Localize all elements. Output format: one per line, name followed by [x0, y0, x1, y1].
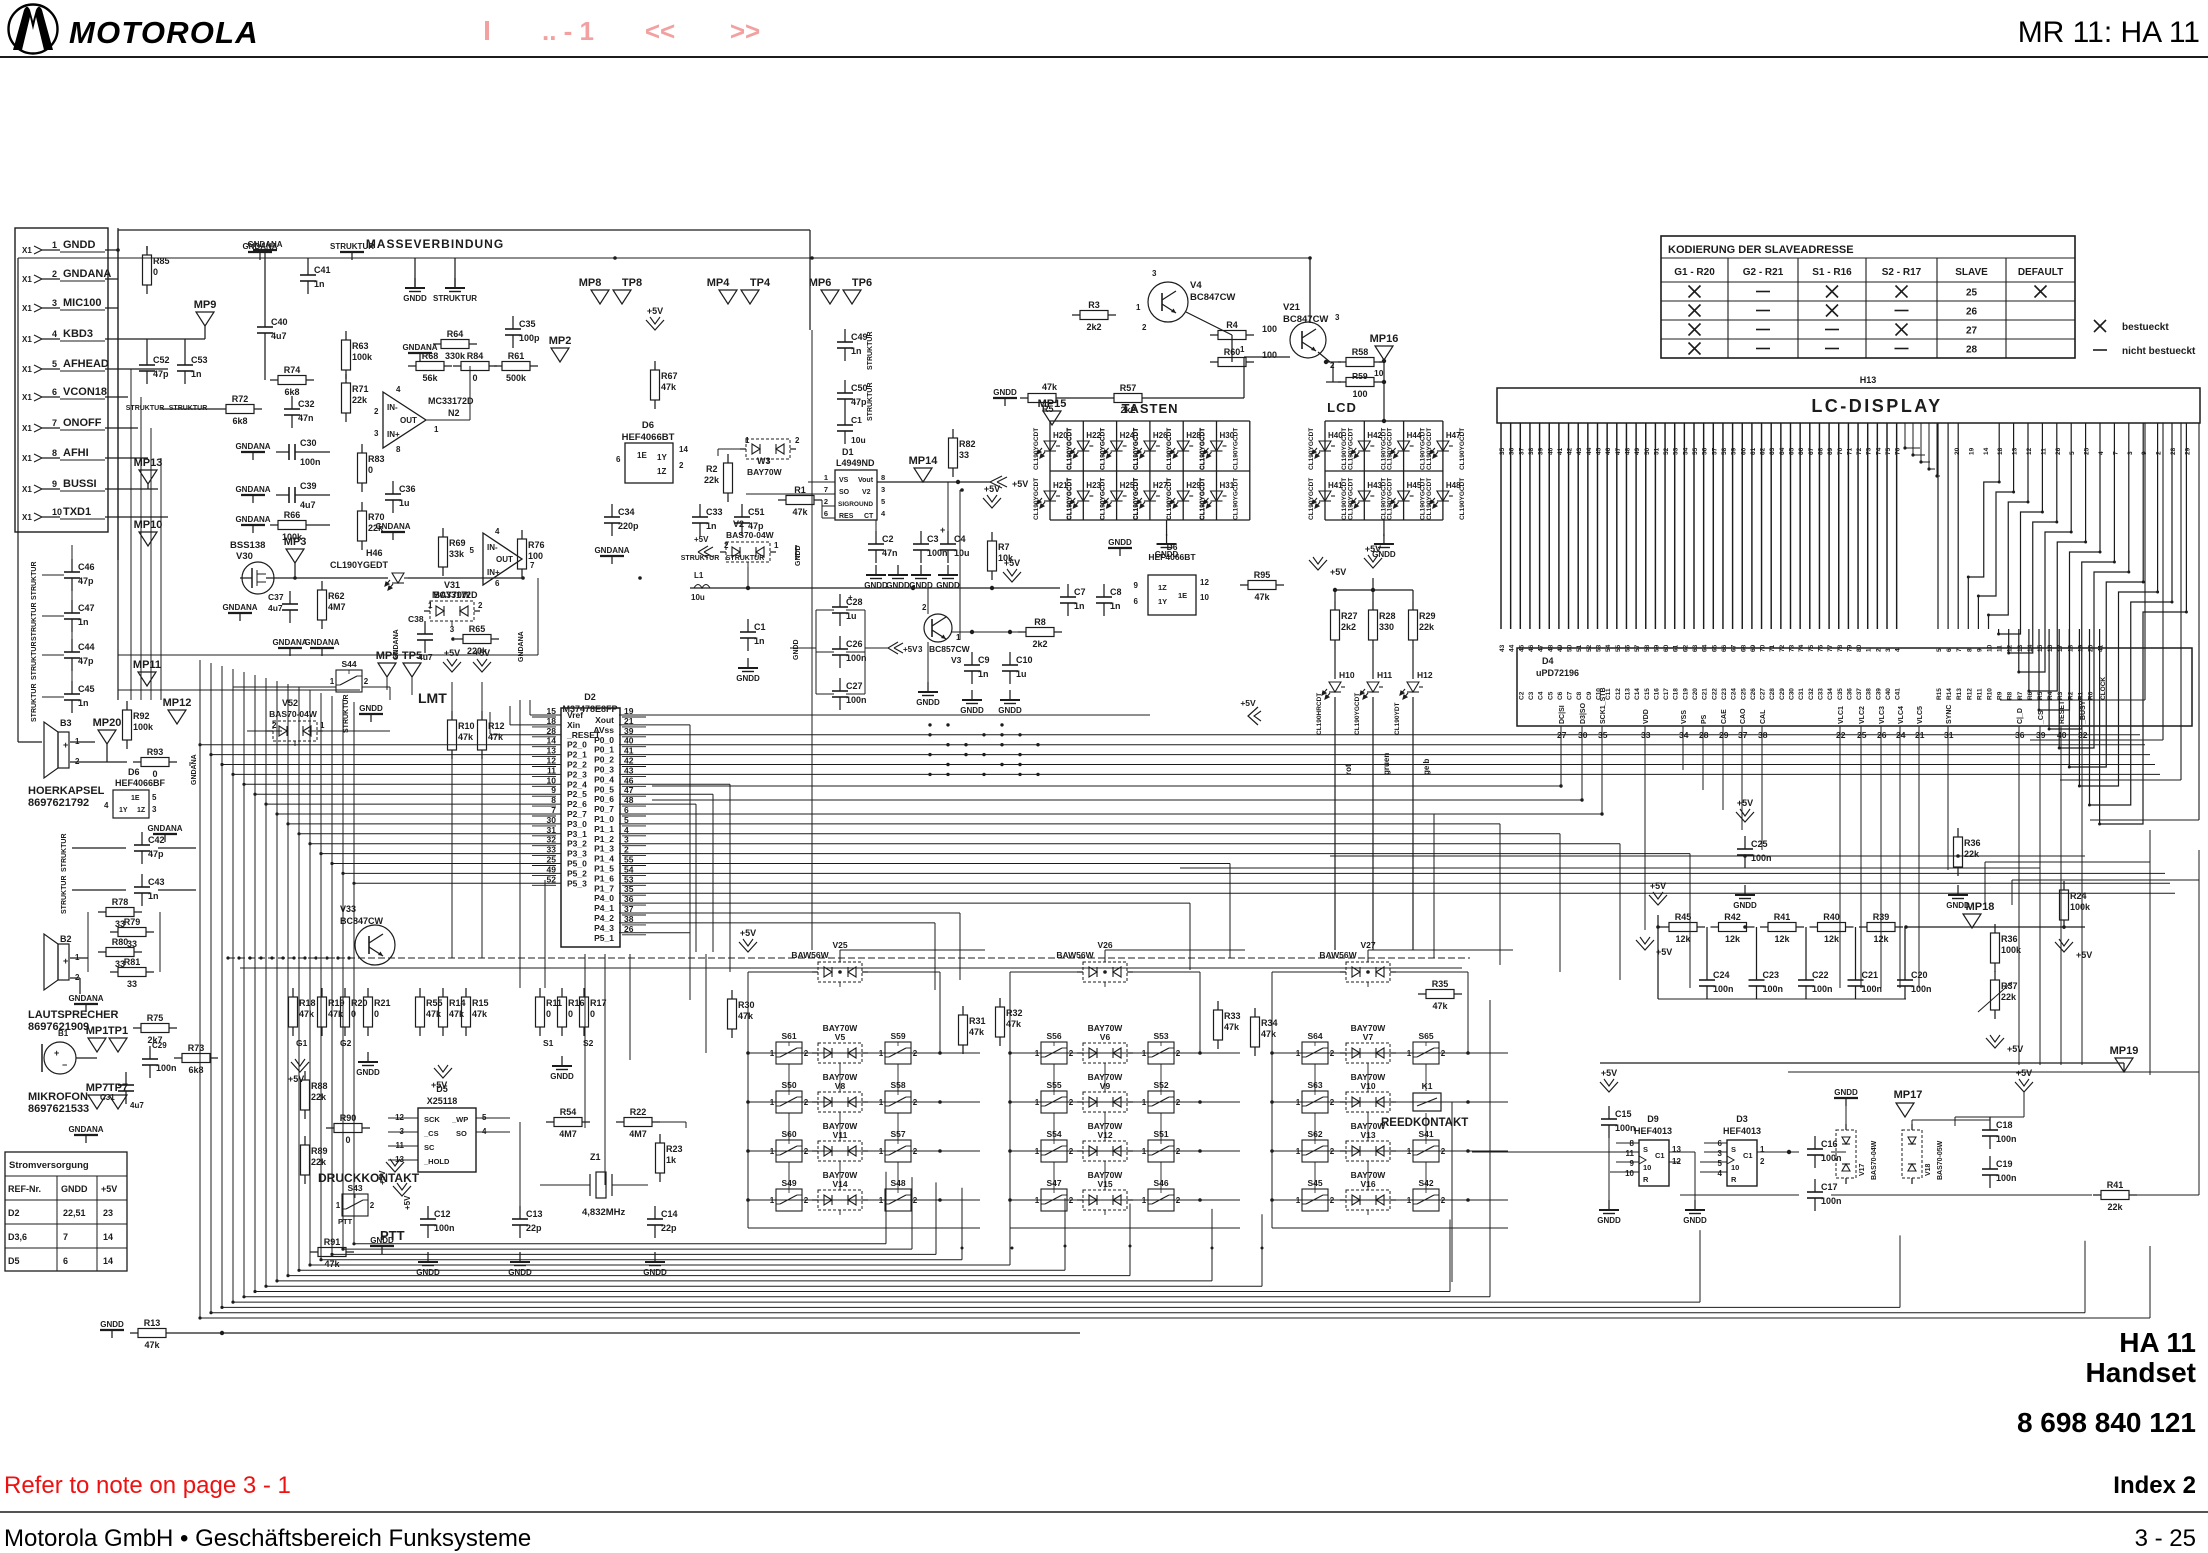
resistor R20: [344, 988, 346, 997]
svg-text:I: I: [483, 15, 491, 46]
svg-text:5: 5: [881, 497, 885, 506]
test point MP17: [1896, 1103, 1914, 1117]
test point MP19: [2115, 1058, 2133, 1072]
svg-text:2: 2: [1069, 1049, 1074, 1058]
test point MP1: [88, 1038, 106, 1052]
svg-text:BAY70W: BAY70W: [823, 1072, 859, 1082]
svg-text:SO: SO: [839, 489, 850, 496]
svg-text:MIKROFON: MIKROFON: [28, 1091, 88, 1103]
svg-text:−: −: [62, 1060, 67, 1070]
svg-text:20: 20: [1954, 447, 1961, 455]
svg-text:R89: R89: [311, 1146, 328, 1156]
svg-text:Vref: Vref: [567, 710, 583, 720]
svg-text:STRUKTUR: STRUKTUR: [681, 555, 720, 562]
svg-text:G2 - R21: G2 - R21: [1743, 267, 1784, 278]
svg-text:CLOCK: CLOCK: [2100, 677, 2107, 700]
svg-text:2: 2: [913, 1098, 918, 1107]
svg-text:BAY70W: BAY70W: [1088, 1170, 1124, 1180]
svg-text:+5V: +5V: [288, 1074, 304, 1084]
resistor R71: [345, 374, 347, 383]
svg-text:R54: R54: [560, 1107, 577, 1117]
svg-text:GNDANA: GNDANA: [518, 631, 525, 662]
svg-text:R36: R36: [2001, 934, 2018, 944]
svg-text:MP15: MP15: [1038, 398, 1067, 410]
svg-text:BAY70W: BAY70W: [1351, 1023, 1387, 1033]
svg-text:CL190YGCDT: CL190YGCDT: [1100, 478, 1107, 520]
svg-text:0: 0: [153, 267, 158, 277]
svg-text:P0_5: P0_5: [594, 784, 614, 794]
svg-text:R11: R11: [1976, 688, 1983, 700]
svg-text:P4_3: P4_3: [594, 923, 614, 933]
svg-text:D1: D1: [842, 447, 854, 457]
svg-text:R67: R67: [661, 371, 678, 381]
resistor R81: [110, 971, 118, 973]
resistor R78: [98, 911, 106, 913]
svg-text:D9: D9: [1647, 1114, 1659, 1124]
svg-text:100n: 100n: [1713, 984, 1734, 994]
transistor V4 BC847CW: [1148, 282, 1188, 322]
capacitor C35: [512, 316, 514, 329]
svg-text:47p: 47p: [78, 576, 94, 586]
LED H45 CL190YGCDT: [1391, 491, 1414, 508]
microphone B1 MIKROFON: [44, 1042, 76, 1074]
svg-text:P2_1: P2_1: [567, 750, 587, 760]
wires s44 area: [233, 686, 336, 688]
svg-text:6: 6: [495, 579, 500, 588]
svg-text:VSS: VSS: [1681, 710, 1688, 724]
ground GNDD: [1834, 1097, 1858, 1099]
svg-text:V2: V2: [733, 519, 744, 529]
svg-text:0: 0: [472, 373, 477, 383]
test point MP8: [591, 290, 609, 304]
capacitor C32: [291, 396, 293, 409]
ground GNDD: [414, 278, 416, 288]
LED H44 CL190YGCDT: [1391, 441, 1414, 458]
svg-text:P1_6: P1_6: [594, 873, 614, 883]
svg-text:P1_4: P1_4: [594, 854, 614, 864]
svg-text:2: 2: [2156, 451, 2163, 455]
resistor R29: [1412, 601, 1414, 610]
svg-text:DRUCKKONTAKT: DRUCKKONTAKT: [318, 1171, 420, 1185]
resistor R19: [321, 988, 323, 997]
svg-text:+: +: [54, 1048, 59, 1058]
switch S54: [1041, 1140, 1067, 1162]
LED H29 CL190YGCDT: [1170, 491, 1193, 508]
svg-text:C13: C13: [526, 1209, 543, 1219]
resistor R92: [126, 701, 128, 710]
svg-text:D3,6: D3,6: [8, 1232, 27, 1242]
wire +5V rail 588: [690, 587, 1060, 589]
svg-text:G2: G2: [340, 1038, 352, 1048]
wire bus LC-display row lines with staircase: [1937, 423, 1939, 629]
svg-text:2: 2: [922, 603, 927, 612]
resistor R17: [583, 988, 585, 997]
ground GNDD: [897, 565, 899, 575]
svg-text:100n: 100n: [1862, 984, 1883, 994]
junction dots bus crossings: [928, 723, 931, 726]
svg-text:_HOLD: _HOLD: [423, 1157, 450, 1166]
wire analog box bottom: [118, 654, 538, 656]
svg-text:4u7: 4u7: [300, 500, 316, 510]
svg-text:5: 5: [52, 359, 57, 369]
svg-text:P5_2: P5_2: [567, 868, 587, 878]
wire left spine verticals: [117, 228, 119, 700]
svg-text:GNDD: GNDD: [1733, 901, 1757, 910]
+5V supply: [1649, 895, 1667, 905]
svg-text:100n: 100n: [156, 1063, 177, 1073]
svg-text:TXD1: TXD1: [63, 506, 91, 518]
resistor R68: [408, 365, 416, 367]
resistor R61: [494, 365, 502, 367]
svg-text:PS: PS: [1701, 714, 1708, 724]
capacitor C29: [149, 1046, 151, 1059]
svg-text:R14: R14: [449, 998, 466, 1008]
svg-text:2: 2: [804, 1196, 809, 1205]
svg-text:X1: X1: [22, 513, 32, 522]
svg-text:>>: >>: [730, 16, 760, 46]
svg-text:GNDANA: GNDANA: [235, 485, 270, 494]
svg-text:CL190YGCDT: CL190YGCDT: [1233, 428, 1240, 470]
capacitor C28: [839, 594, 841, 607]
svg-text:CL190HRCDT: CL190HRCDT: [1316, 693, 1323, 735]
svg-text:GNDANA: GNDANA: [235, 442, 270, 451]
svg-text:1n: 1n: [314, 279, 325, 289]
svg-text:GNDD: GNDD: [886, 581, 910, 590]
wire horizontals below D4: [1330, 855, 2085, 857]
svg-text:OUT: OUT: [496, 555, 513, 564]
svg-text:7: 7: [530, 561, 535, 570]
svg-text:CL190YGCDT: CL190YGCDT: [1459, 428, 1466, 470]
svg-text:P1_1: P1_1: [594, 824, 614, 834]
svg-text:38: 38: [1528, 447, 1535, 455]
svg-text:uPD72196: uPD72196: [1536, 668, 1579, 678]
svg-text:C35: C35: [1837, 688, 1844, 700]
svg-text:1: 1: [330, 677, 335, 686]
svg-text:47k: 47k: [458, 732, 474, 742]
svg-text:VLC5: VLC5: [1917, 706, 1924, 724]
svg-text:+5V: +5V: [2007, 1044, 2023, 1054]
svg-text:100n: 100n: [434, 1223, 455, 1233]
svg-text:2: 2: [364, 677, 369, 686]
svg-text:8: 8: [396, 445, 401, 454]
svg-text:gruen: gruen: [1382, 753, 1391, 775]
svg-text:47p: 47p: [153, 369, 169, 379]
svg-text:C53: C53: [191, 355, 208, 365]
LED H30 CL190YGCDT: [1204, 441, 1227, 458]
svg-text:MP20: MP20: [93, 717, 122, 729]
capacitor C50: [844, 380, 846, 393]
svg-text:GNDD: GNDD: [916, 698, 940, 707]
svg-text:X1: X1: [22, 275, 32, 284]
svg-text:35: 35: [1499, 447, 1506, 455]
svg-text:28: 28: [2170, 447, 2177, 455]
legend bestueckt: [2094, 320, 2106, 332]
svg-text:CL190YGCDT: CL190YGCDT: [1233, 478, 1240, 520]
svg-text:GNDD: GNDD: [1155, 550, 1179, 559]
switch S51: [1148, 1140, 1174, 1162]
svg-text:D4: D4: [1542, 656, 1554, 666]
svg-text:MP9: MP9: [194, 299, 217, 311]
test point MP15: [1043, 411, 1061, 425]
wire X1 to spine: [105, 249, 118, 251]
resistor R29: [1412, 590, 1414, 601]
svg-text:CL190YGCDT: CL190YGCDT: [1426, 478, 1433, 520]
capacitor C41: [307, 262, 309, 275]
svg-text:47k: 47k: [1261, 1029, 1277, 1039]
svg-text:R42: R42: [1724, 912, 1741, 922]
svg-text:C17: C17: [1821, 1182, 1838, 1192]
svg-text:C50: C50: [851, 383, 868, 393]
svg-text:G1: G1: [296, 1038, 308, 1048]
svg-text:L4949ND: L4949ND: [836, 458, 875, 468]
ground GNDD: [920, 565, 922, 575]
svg-text:12: 12: [1200, 578, 1209, 587]
resistor R12: [481, 711, 483, 720]
svg-text:47p: 47p: [851, 397, 867, 407]
switch S55: [1041, 1091, 1067, 1113]
ground GNDD: [1957, 885, 1959, 895]
svg-text:1: 1: [1035, 1098, 1040, 1107]
ground GNDANA: [381, 531, 405, 533]
svg-text:TP1: TP1: [108, 1025, 128, 1037]
svg-text:43: 43: [1499, 644, 1506, 652]
svg-text:AFHI: AFHI: [63, 447, 89, 459]
resistor R30: [731, 990, 733, 999]
svg-text:V27: V27: [1360, 940, 1375, 950]
switch S49: [776, 1189, 802, 1211]
svg-text:100: 100: [1352, 389, 1367, 399]
svg-text:12k: 12k: [1873, 934, 1889, 944]
svg-text:MP11: MP11: [133, 659, 161, 671]
svg-text:GNDD: GNDD: [359, 704, 383, 713]
svg-text:6: 6: [824, 509, 828, 518]
svg-text:68: 68: [1817, 447, 1824, 455]
svg-text:R30: R30: [738, 1000, 755, 1010]
ground GNDANA: [241, 524, 265, 526]
capacitor C52: [146, 352, 148, 365]
LED H28 CL190YGCDT: [1170, 441, 1193, 458]
svg-text:P4_0: P4_0: [594, 893, 614, 903]
svg-text:GNDD: GNDD: [416, 1268, 440, 1277]
svg-text:R15: R15: [472, 998, 489, 1008]
capacitor C17: [1814, 1179, 1816, 1192]
svg-text:R10: R10: [458, 721, 475, 731]
svg-text:1: 1: [1407, 1147, 1412, 1156]
svg-text:C20: C20: [1911, 970, 1928, 980]
svg-text:V25: V25: [832, 940, 847, 950]
svg-text:C15: C15: [1615, 1109, 1632, 1119]
svg-text:R10: R10: [1987, 688, 1994, 700]
svg-text:100k: 100k: [133, 722, 154, 732]
svg-text:C29: C29: [152, 1041, 167, 1050]
svg-text:S44: S44: [341, 659, 356, 669]
resistor R79: [110, 931, 118, 933]
wires v4 cluster: [1064, 397, 1106, 399]
svg-text:+5V: +5V: [1240, 698, 1256, 708]
svg-text:BAY70W: BAY70W: [823, 1023, 859, 1033]
svg-text:R75: R75: [147, 1013, 164, 1023]
ground GNDD: [367, 1052, 369, 1062]
svg-text:10: 10: [1643, 1163, 1651, 1172]
ground GNDANA: [248, 251, 272, 253]
resistor R45: [1661, 926, 1669, 928]
ground GNDD: [1608, 1200, 1610, 1210]
svg-text:R80: R80: [112, 937, 129, 947]
svg-text:Z1: Z1: [590, 1152, 601, 1162]
svg-text:1n: 1n: [706, 521, 717, 531]
svg-text:N2: N2: [448, 408, 460, 418]
wire left margin vertical: [17, 258, 19, 742]
svg-text:47p: 47p: [148, 849, 164, 859]
svg-text:C19: C19: [1682, 688, 1689, 700]
svg-text:4u7: 4u7: [268, 603, 283, 613]
diode W3 BAY70W: [746, 439, 790, 459]
svg-text:R17: R17: [590, 998, 607, 1008]
capacitor C1: [844, 412, 846, 425]
svg-text:+5V: +5V: [444, 648, 460, 658]
ground GNDANA: [153, 833, 177, 835]
svg-text:GNDD: GNDD: [793, 639, 800, 660]
svg-text:R34: R34: [1261, 1018, 1278, 1028]
svg-text:C27: C27: [846, 681, 863, 691]
svg-text:S65: S65: [1418, 1031, 1433, 1041]
ground STRUKTUR: [454, 278, 456, 288]
resistor R66: [270, 524, 278, 526]
+5V supply: [386, 1162, 404, 1172]
LED H42 CL190YGCDT: [1351, 441, 1374, 458]
resistor R76: [521, 530, 523, 539]
test point MP13: [139, 470, 157, 484]
svg-text:HEF4066BF: HEF4066BF: [115, 778, 166, 788]
svg-text:P0_3: P0_3: [594, 765, 614, 775]
svg-text:2: 2: [724, 541, 729, 550]
svg-text:22k: 22k: [2107, 1202, 2123, 1212]
svg-text:R: R: [1643, 1175, 1649, 1184]
wire bus LC-display column lines: [1500, 423, 1502, 629]
LED H20 CL190YGCDT: [1037, 441, 1060, 458]
svg-text:C32: C32: [1808, 688, 1815, 700]
svg-text:2: 2: [374, 407, 379, 416]
svg-text:C46: C46: [78, 562, 95, 572]
svg-text:6k8: 6k8: [232, 416, 247, 426]
svg-text:4: 4: [52, 329, 57, 339]
wires below D4: [1560, 726, 1562, 786]
svg-text:P2_2: P2_2: [567, 760, 587, 770]
LED H27 CL190YGCDT: [1137, 491, 1160, 508]
svg-text:22,51: 22,51: [63, 1208, 86, 1218]
svg-text:MP14: MP14: [909, 455, 939, 467]
svg-text:47k: 47k: [426, 1009, 442, 1019]
svg-text:47n: 47n: [882, 548, 898, 558]
resistor R57: [1106, 397, 1114, 399]
svg-text:6: 6: [1134, 597, 1139, 606]
svg-text:BAY70W: BAY70W: [1351, 1121, 1387, 1131]
svg-text:100n: 100n: [1821, 1153, 1842, 1163]
svg-text:CL190YGCDT: CL190YGCDT: [1133, 428, 1140, 470]
transistor V33 BC847CW: [355, 925, 395, 965]
LED H12: [1412, 649, 1414, 679]
svg-text:Xout: Xout: [595, 715, 614, 725]
resistor R55: [419, 988, 421, 997]
svg-text:1: 1: [336, 1201, 341, 1210]
svg-text:36: 36: [1509, 447, 1516, 455]
svg-text:63: 63: [1769, 447, 1776, 455]
svg-text:C2: C2: [882, 534, 894, 544]
svg-text:52: 52: [1663, 447, 1670, 455]
svg-text:47k: 47k: [1042, 382, 1058, 392]
svg-text:0: 0: [345, 1135, 350, 1145]
capacitor C36: [392, 481, 394, 494]
svg-text:P3_3: P3_3: [567, 849, 587, 859]
resistor R33: [1217, 1001, 1219, 1010]
svg-text:R23: R23: [666, 1144, 683, 1154]
svg-text:14: 14: [1983, 447, 1990, 455]
svg-text:R3: R3: [1088, 300, 1100, 310]
svg-text:220p: 220p: [618, 521, 639, 531]
svg-text:MP3: MP3: [284, 536, 307, 548]
svg-text:MP4: MP4: [707, 277, 731, 289]
svg-text:+5V: +5V: [403, 1195, 412, 1210]
svg-text:CL190YGCDT: CL190YGCDT: [1354, 693, 1361, 735]
svg-text:KODIERUNG DER SLAVEADRESSE: KODIERUNG DER SLAVEADRESSE: [1668, 244, 1854, 256]
svg-text:1: 1: [1296, 1196, 1301, 1205]
svg-text:7: 7: [2112, 451, 2119, 455]
resistor R88: [304, 1071, 306, 1080]
svg-text:1: 1: [434, 425, 439, 434]
svg-text:5: 5: [152, 793, 157, 802]
svg-text:R64: R64: [447, 329, 464, 339]
svg-text:C33: C33: [1817, 688, 1824, 700]
svg-text:D5: D5: [8, 1256, 20, 1266]
svg-text:C30: C30: [1789, 688, 1796, 700]
svg-text:D3: D3: [1736, 1114, 1748, 1124]
svg-text:62: 62: [1760, 447, 1767, 455]
svg-text:D5: D5: [436, 1084, 448, 1094]
wire dashed bus under MCU: [228, 957, 1470, 959]
svg-text:C3: C3: [927, 534, 939, 544]
capacitor C31: [125, 1072, 127, 1085]
svg-text:H12: H12: [1417, 670, 1433, 680]
wire MP16 to LCD: [1383, 360, 1385, 421]
svg-text:P3_1: P3_1: [567, 829, 587, 839]
svg-text:CT: CT: [864, 513, 874, 520]
table Stromversorgung: [5, 1152, 127, 1271]
test point TP1: [109, 1038, 127, 1052]
svg-text:6: 6: [52, 387, 57, 397]
svg-text:R14: R14: [1946, 688, 1953, 700]
switch S44: [336, 670, 362, 692]
svg-text:MP6: MP6: [809, 277, 832, 289]
resistor R21: [367, 988, 369, 997]
ground GNDD: [1166, 534, 1168, 544]
svg-text:1: 1: [1035, 1049, 1040, 1058]
LED H21 CL190YGCDT: [1037, 491, 1060, 508]
svg-text:28: 28: [1966, 345, 1978, 356]
svg-text:C25: C25: [1751, 839, 1768, 849]
svg-text:GNDANA: GNDANA: [402, 343, 437, 352]
svg-text:C33: C33: [706, 507, 723, 517]
svg-text:BAY70W: BAY70W: [1351, 1170, 1387, 1180]
switch S43: [342, 1194, 368, 1216]
svg-text:C1: C1: [851, 415, 862, 425]
svg-text:C12: C12: [434, 1209, 451, 1219]
svg-text:2: 2: [1441, 1196, 1446, 1205]
svg-text:2: 2: [679, 461, 684, 470]
svg-text:2: 2: [1176, 1098, 1181, 1107]
switch S48: [885, 1189, 911, 1211]
svg-text:V2: V2: [862, 489, 871, 496]
test point MP7: [88, 1095, 106, 1109]
